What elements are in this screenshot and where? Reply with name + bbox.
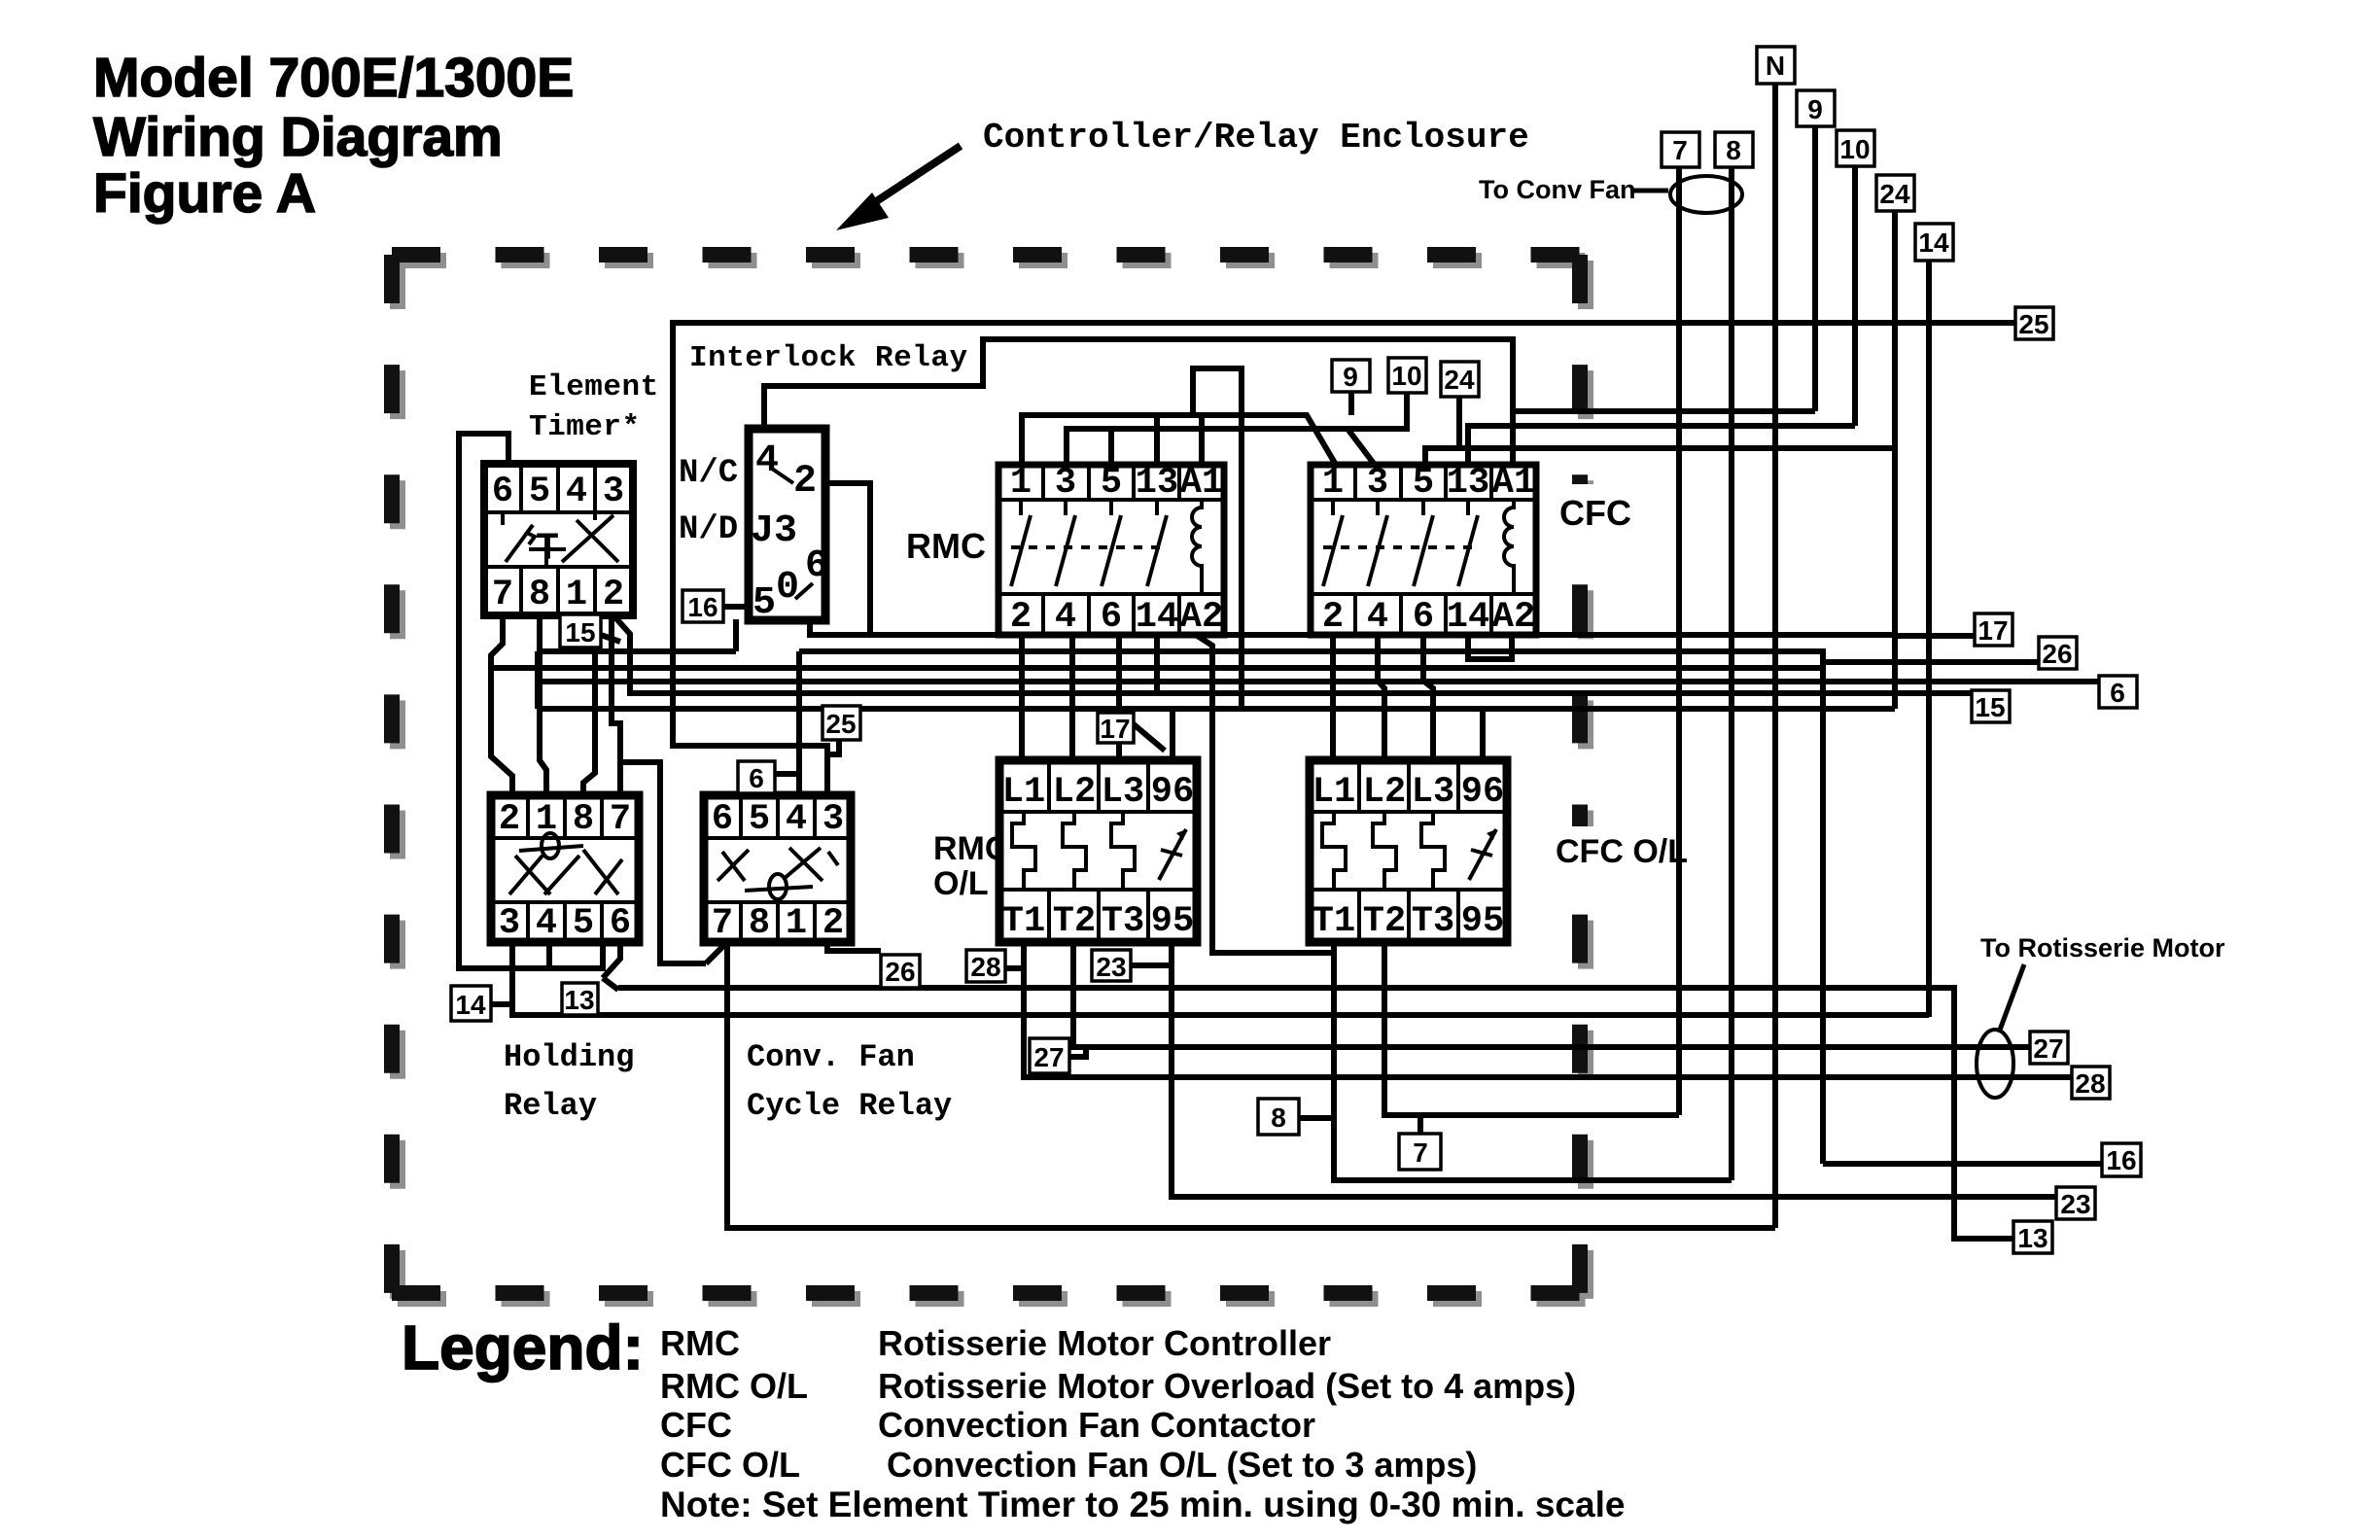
svg-text:6: 6	[749, 763, 764, 793]
svg-text:T1: T1	[1312, 901, 1355, 942]
svg-text:2: 2	[499, 799, 520, 840]
svg-text:8: 8	[749, 903, 770, 944]
svg-text:T2: T2	[1363, 901, 1406, 942]
svg-text:Element: Element	[529, 370, 659, 404]
svg-text:2: 2	[1010, 597, 1032, 638]
svg-text:28: 28	[970, 952, 1000, 982]
svg-text:17: 17	[1977, 615, 2008, 646]
svg-text:N/C: N/C	[679, 455, 738, 492]
svg-text:4: 4	[566, 472, 587, 512]
svg-text:L3: L3	[1412, 772, 1454, 813]
svg-text:1: 1	[1322, 463, 1344, 504]
svg-text:14: 14	[1918, 227, 1949, 258]
svg-text:8: 8	[1271, 1102, 1286, 1133]
svg-text:5: 5	[752, 581, 776, 625]
svg-text:96: 96	[1151, 772, 1194, 813]
svg-text:Holding: Holding	[504, 1039, 634, 1075]
svg-text:5: 5	[529, 472, 550, 512]
svg-text:L2: L2	[1363, 772, 1406, 813]
svg-text:9: 9	[1343, 362, 1358, 392]
svg-text:26: 26	[885, 957, 915, 987]
svg-text:RMC: RMC	[660, 1323, 740, 1363]
svg-text:3: 3	[822, 799, 844, 840]
svg-text:A1: A1	[1180, 463, 1223, 504]
svg-text:7: 7	[610, 799, 631, 840]
svg-text:5: 5	[749, 799, 770, 840]
svg-text:0: 0	[776, 566, 799, 610]
svg-text:A2: A2	[1492, 597, 1535, 638]
svg-text:8: 8	[1726, 135, 1741, 165]
svg-text:1: 1	[1010, 463, 1032, 504]
svg-text:T3: T3	[1102, 901, 1144, 942]
svg-text:16: 16	[687, 592, 717, 622]
svg-text:L2: L2	[1053, 772, 1096, 813]
svg-text:3: 3	[499, 903, 520, 944]
svg-text:14: 14	[1136, 597, 1178, 638]
svg-text:14: 14	[1447, 597, 1489, 638]
svg-text:5: 5	[1101, 463, 1122, 504]
svg-text:7: 7	[712, 903, 733, 944]
svg-text:L1: L1	[1312, 772, 1355, 813]
svg-text:4: 4	[536, 903, 557, 944]
svg-text:Conv. Fan: Conv. Fan	[747, 1039, 915, 1075]
svg-text:8: 8	[529, 575, 550, 615]
svg-text:13: 13	[564, 985, 594, 1015]
svg-text:To Conv Fan: To Conv Fan	[1479, 175, 1636, 204]
svg-text:6: 6	[2110, 678, 2125, 708]
svg-text:1: 1	[786, 903, 807, 944]
svg-text:CFC: CFC	[1559, 493, 1631, 533]
svg-text:2: 2	[822, 903, 844, 944]
svg-text:13: 13	[1136, 463, 1178, 504]
svg-text:O/L: O/L	[933, 865, 989, 902]
svg-text:10: 10	[1391, 361, 1421, 391]
svg-text:CFC: CFC	[660, 1405, 732, 1445]
svg-text:1: 1	[566, 575, 587, 615]
svg-text:28: 28	[2075, 1068, 2105, 1099]
svg-text:24: 24	[1879, 179, 1910, 209]
svg-text:Convection Fan Contactor: Convection Fan Contactor	[878, 1405, 1315, 1445]
svg-text:Figure A: Figure A	[93, 162, 316, 225]
svg-text:95: 95	[1461, 901, 1504, 942]
svg-text:16: 16	[2106, 1145, 2136, 1175]
svg-text:Model 700E/1300E: Model 700E/1300E	[93, 47, 574, 109]
svg-text:N/D: N/D	[679, 511, 738, 548]
svg-text:T2: T2	[1053, 901, 1096, 942]
svg-text:9: 9	[1807, 94, 1823, 124]
svg-text:To Rotisserie Motor: To Rotisserie Motor	[1980, 933, 2225, 962]
svg-text:6: 6	[1413, 597, 1434, 638]
svg-text:15: 15	[1975, 692, 2005, 722]
svg-text:7: 7	[1672, 135, 1688, 165]
svg-text:27: 27	[2033, 1033, 2063, 1064]
svg-text:96: 96	[1461, 772, 1504, 813]
svg-text:25: 25	[2018, 309, 2048, 339]
svg-text:23: 23	[1096, 952, 1126, 982]
svg-text:CFC O/L: CFC O/L	[1556, 833, 1688, 870]
svg-text:A1: A1	[1492, 463, 1535, 504]
svg-text:T: T	[536, 528, 559, 572]
svg-text:Note: Set Element Timer to 25: Note: Set Element Timer to 25 min. using…	[660, 1485, 1625, 1524]
svg-text:6: 6	[610, 903, 631, 944]
svg-text:J3: J3	[751, 509, 797, 553]
svg-text:2: 2	[603, 575, 624, 615]
svg-text:5: 5	[573, 903, 594, 944]
svg-text:6: 6	[805, 544, 828, 588]
svg-text:14: 14	[455, 990, 486, 1020]
svg-text:2: 2	[1322, 597, 1344, 638]
svg-text:27: 27	[1033, 1042, 1064, 1072]
svg-text:13: 13	[1447, 463, 1489, 504]
svg-text:17: 17	[1100, 714, 1130, 744]
svg-text:25: 25	[825, 709, 856, 739]
svg-text:Legend:: Legend:	[402, 1312, 644, 1382]
svg-text:Controller/Relay Enclosure: Controller/Relay Enclosure	[983, 118, 1529, 157]
svg-text:8: 8	[573, 799, 594, 840]
svg-text:4: 4	[1367, 597, 1388, 638]
svg-text:T3: T3	[1412, 901, 1454, 942]
svg-text:10: 10	[1839, 134, 1870, 164]
svg-text:7: 7	[492, 575, 513, 615]
svg-text:Convection Fan O/L (Set to 3 a: Convection Fan O/L (Set to 3 amps)	[887, 1445, 1477, 1485]
svg-text:4: 4	[755, 439, 779, 483]
svg-text:Rotisserie Motor Overload (Set: Rotisserie Motor Overload (Set to 4 amps…	[878, 1366, 1576, 1406]
svg-text:23: 23	[2060, 1189, 2090, 1219]
svg-text:Interlock Relay: Interlock Relay	[689, 341, 968, 375]
svg-text:A2: A2	[1180, 597, 1223, 638]
svg-text:Cycle Relay: Cycle Relay	[747, 1088, 952, 1124]
svg-text:5: 5	[1413, 463, 1434, 504]
svg-text:CFC O/L: CFC O/L	[660, 1445, 800, 1485]
svg-text:Rotisserie Motor Controller: Rotisserie Motor Controller	[878, 1323, 1331, 1363]
svg-text:7: 7	[1413, 1137, 1428, 1168]
svg-text:95: 95	[1151, 901, 1194, 942]
svg-text:24: 24	[1444, 365, 1475, 395]
svg-text:2: 2	[793, 460, 817, 504]
svg-text:15: 15	[565, 617, 595, 647]
svg-text:26: 26	[2042, 639, 2072, 669]
svg-text:3: 3	[1055, 463, 1076, 504]
svg-text:4: 4	[786, 799, 807, 840]
svg-text:Timer*: Timer*	[529, 410, 641, 444]
svg-text:Wiring Diagram: Wiring Diagram	[93, 106, 503, 168]
svg-text:6: 6	[1101, 597, 1122, 638]
svg-text:L3: L3	[1102, 772, 1144, 813]
svg-text:6: 6	[492, 472, 513, 512]
svg-text:Relay: Relay	[504, 1088, 597, 1124]
svg-text:T1: T1	[1002, 901, 1045, 942]
svg-text:RMC O/L: RMC O/L	[660, 1366, 808, 1406]
svg-text:13: 13	[2017, 1223, 2047, 1253]
svg-text:RMC: RMC	[906, 526, 986, 566]
svg-text:6: 6	[712, 799, 733, 840]
svg-text:L1: L1	[1002, 772, 1045, 813]
svg-text:3: 3	[603, 472, 624, 512]
svg-text:N: N	[1766, 51, 1785, 81]
svg-text:4: 4	[1055, 597, 1076, 638]
svg-text:3: 3	[1367, 463, 1388, 504]
